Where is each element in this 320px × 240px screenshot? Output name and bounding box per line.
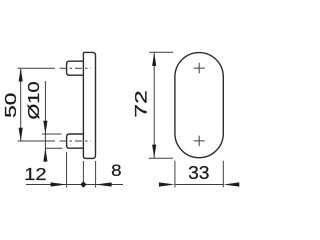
dim 33 ext right: [222, 161, 224, 188]
arrow 72 bottom (down): [152, 145, 156, 158]
dim dia10 ext top: [42, 133, 62, 135]
dim 33 line: [175, 184, 223, 186]
arrow 8 (left): [96, 182, 112, 186]
dim 72 ext top: [149, 51, 173, 53]
dim 12/8 line: [26, 184, 123, 186]
plate (side view outline): [83, 52, 95, 158]
arrow dia10 upper (down): [43, 121, 47, 134]
stud bottom: [67, 134, 84, 148]
centerline bottom stud: [18, 140, 56, 142]
arrow 33 left (right-pointing): [159, 182, 175, 186]
dim 33 ext left: [174, 161, 176, 188]
ext line plate right: [95, 161, 97, 188]
dim dia10 line: [44, 81, 46, 162]
dim 50 line: [20, 68, 22, 141]
svg-text:33: 33: [188, 163, 209, 183]
oval (front view outline): [175, 53, 223, 158]
centerline top stud: [18, 67, 56, 69]
dot separator: [81, 182, 86, 187]
ext line stud left: [66, 152, 68, 188]
stud top: [67, 61, 84, 75]
arrow dia10 lower (up): [43, 148, 47, 161]
ext line plate left: [82, 161, 84, 188]
svg-text:12: 12: [24, 165, 46, 185]
arrow 33 right (left-pointing): [223, 182, 239, 186]
arrow 50 top (up): [19, 68, 23, 81]
svg-text:50: 50: [2, 93, 20, 118]
dim 72 ext bottom: [149, 157, 173, 159]
plus mark bottom: [194, 136, 205, 147]
svg-text:Ø10: Ø10: [25, 81, 42, 119]
svg-text:8: 8: [111, 161, 121, 180]
arrow 50 bottom (down): [19, 128, 23, 141]
arrow 72 top (up): [152, 53, 156, 66]
dim dia10 ext bottom: [45, 147, 63, 149]
dim 72 line: [153, 53, 155, 158]
plus mark top: [194, 63, 205, 74]
svg-text:72: 72: [132, 90, 150, 118]
arrow 12 (right): [51, 182, 67, 186]
